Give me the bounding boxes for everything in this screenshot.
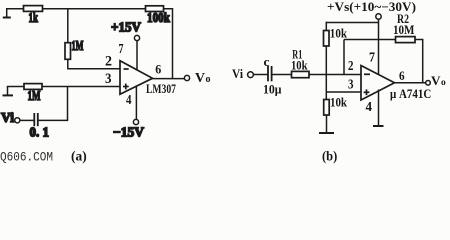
- wire output (b): [395, 82, 426, 84]
- wire ground to R 1k: [6, 8, 24, 10]
- wire junction down to capacitor level: [67, 87, 69, 121]
- svg-text:Vi: Vi: [1, 110, 14, 125]
- svg-text:0. 1: 0. 1: [30, 125, 50, 140]
- feedback rail: [344, 39, 396, 41]
- ground top-left (a): [3, 9, 11, 18]
- ground pin4 (b): [373, 125, 384, 127]
- svg-text:1M: 1M: [72, 39, 84, 54]
- resistor 1M (bottom horizontal): [24, 84, 42, 104]
- ground bottom-left (a): [3, 87, 14, 96]
- svg-text:4: 4: [126, 93, 132, 108]
- svg-text:100k: 100k: [147, 11, 170, 26]
- op-amp U2 uA741C: [361, 66, 395, 101]
- svg-text:7: 7: [119, 42, 124, 57]
- svg-text:10M: 10M: [393, 22, 415, 37]
- wire ground to R 1M bottom: [7, 86, 24, 88]
- minus mark pin2 (a): [124, 68, 129, 70]
- wire junction down to R 1M: [67, 9, 69, 43]
- wire R1 to pin2 (b): [309, 74, 362, 76]
- wire Vi to capacitor c: [253, 74, 268, 76]
- minus mark pin2 (b): [364, 73, 370, 75]
- wire 1M to pin2 corner: [68, 59, 121, 68]
- svg-text:6: 6: [399, 68, 405, 83]
- svg-text:2: 2: [105, 54, 112, 70]
- feedback wire down to pin2 node: [343, 40, 345, 75]
- svg-text:+15V: +15V: [111, 20, 141, 35]
- wire Vi to capacitor: [20, 119, 34, 121]
- svg-text:Q606.COM: Q606.COM: [0, 150, 53, 165]
- svg-text:1M: 1M: [28, 89, 41, 104]
- terminal +15V: [111, 20, 141, 41]
- svg-text:Vi: Vi: [232, 66, 243, 81]
- wire pin4 (a): [135, 85, 137, 120]
- wire pin7 (a): [136, 41, 138, 71]
- resistor 10k lower divider: [324, 92, 348, 115]
- terminal Vi (b): [232, 66, 253, 81]
- divider rail to +Vs: [326, 22, 379, 24]
- wire capacitor to R1: [272, 74, 292, 76]
- wire pin3 (a): [42, 86, 121, 88]
- capacitor c 10u: [263, 55, 282, 96]
- svg-text:7: 7: [369, 51, 375, 66]
- terminal Vi (a): [1, 110, 20, 125]
- wire 1k to 100k (top rail): [43, 8, 146, 10]
- svg-text:10μ: 10μ: [263, 81, 282, 96]
- resistor R1 10k: [291, 47, 309, 77]
- terminal -15V: [113, 119, 144, 139]
- svg-text:10k: 10k: [330, 26, 348, 41]
- svg-text:(b): (b): [322, 150, 338, 165]
- feedback rail right corner down to output: [415, 40, 423, 83]
- wire pin4 (b): [378, 90, 380, 127]
- svg-text:LM307: LM307: [146, 82, 176, 96]
- op-amp U1 LM307: [120, 61, 153, 95]
- svg-text:2: 2: [348, 59, 354, 74]
- ground below lower 10k: [319, 115, 334, 133]
- plus mark pin3 (a): [123, 84, 129, 90]
- terminal Vo (b): [426, 81, 431, 86]
- svg-text:1k: 1k: [29, 11, 39, 26]
- svg-text:10k: 10k: [291, 58, 308, 73]
- svg-text:−15V: −15V: [113, 125, 144, 140]
- resistor 10k upper divider: [324, 22, 348, 46]
- wire pin3 (b): [326, 91, 361, 93]
- wire 100k to output (feedback right side): [164, 9, 173, 79]
- wire capacitor to junction: [38, 119, 68, 121]
- svg-text:10k: 10k: [330, 95, 348, 110]
- capacitor 0.1: [30, 113, 50, 140]
- svg-text:6: 6: [155, 61, 161, 76]
- svg-text:μ A741C: μ A741C: [390, 86, 431, 101]
- terminal Vo (a): [184, 75, 189, 80]
- resistor R2 10M: [393, 12, 415, 43]
- resistor 1k: [24, 6, 43, 26]
- svg-text:(a): (a): [71, 150, 87, 165]
- svg-text:c: c: [264, 55, 270, 69]
- svg-text:3: 3: [348, 78, 354, 93]
- plus mark pin3 (b): [364, 89, 370, 95]
- resistor 1M (vertical): [65, 39, 84, 59]
- terminal +Vs: [327, 0, 416, 19]
- wire output (a): [153, 78, 185, 80]
- svg-text:3: 3: [105, 71, 112, 87]
- wire divider chain crossing pin2 wire: [325, 46, 327, 92]
- wire pin7 (b) from +Vs down: [378, 19, 380, 76]
- svg-text:4: 4: [366, 100, 373, 115]
- resistor 100k: [146, 6, 171, 26]
